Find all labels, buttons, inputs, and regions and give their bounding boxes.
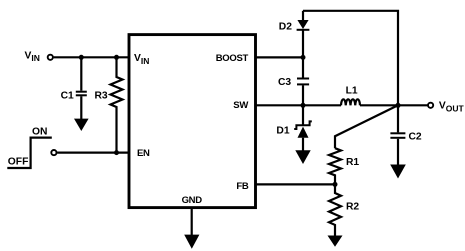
label C1: [61, 91, 74, 102]
label ON: [32, 126, 47, 137]
svg-text:ON: ON: [32, 126, 47, 137]
svg-text:C2: C2: [409, 132, 422, 143]
node VIN/R3 junction: [114, 55, 119, 60]
svg-text:FB: FB: [236, 181, 249, 192]
svg-text:EN: EN: [137, 148, 150, 159]
node R3/EN junction: [114, 150, 119, 155]
svg-text:GND: GND: [182, 195, 203, 206]
diode D2: [297, 11, 310, 58]
terminal EN: [51, 150, 56, 155]
svg-text:D2: D2: [279, 21, 292, 32]
svg-text:VOUT: VOUT: [439, 101, 465, 114]
capacitor C1: [76, 57, 87, 119]
input terminal VIN: [48, 55, 53, 60]
pin label FB: [236, 181, 249, 192]
pin label GND: [182, 195, 203, 206]
terminal VOUT: [428, 103, 433, 108]
label C3: [278, 77, 291, 88]
capacitor C2: [390, 105, 405, 165]
svg-text:BOOST: BOOST: [216, 53, 249, 64]
ground (D1): [295, 150, 310, 164]
svg-text:L1: L1: [346, 85, 358, 96]
svg-text:R1: R1: [346, 157, 359, 168]
label L1: [346, 85, 358, 96]
ON/OFF waveform: [7, 138, 52, 168]
label D2: [279, 21, 292, 32]
ground GND pin: [184, 209, 199, 249]
pin label SW: [233, 100, 248, 111]
wire FB: [256, 183, 335, 185]
resistor R2: [329, 184, 341, 236]
wire BOOST: [256, 56, 303, 58]
label VOUT: [439, 101, 465, 114]
svg-text:C1: C1: [61, 91, 74, 102]
label R3: [95, 91, 108, 102]
svg-text:VIN: VIN: [134, 53, 149, 66]
label C2: [409, 132, 422, 143]
ground (C1): [74, 119, 89, 131]
node SW/D1/C3: [301, 103, 306, 108]
inductor L1: [341, 99, 360, 105]
wire top rail: [303, 11, 398, 106]
wire EN: [57, 152, 128, 154]
pin label EN: [137, 148, 150, 159]
svg-text:D1: D1: [276, 125, 289, 136]
resistor R1: [329, 148, 341, 184]
resistor R3: [111, 57, 123, 152]
node BOOST/D2/C3: [301, 55, 306, 60]
svg-text:SW: SW: [233, 100, 248, 111]
ground (R2): [328, 236, 343, 247]
node output: [395, 103, 400, 108]
label D1: [276, 125, 289, 136]
svg-text:R2: R2: [346, 202, 359, 213]
node FB: [333, 182, 338, 187]
pin label BOOST: [216, 53, 249, 64]
label R1: [346, 157, 359, 168]
wire FB diagonal: [335, 105, 398, 148]
capacitor C3: [297, 57, 309, 105]
wire VIN input: [54, 56, 128, 58]
IC U1 body: [129, 35, 256, 208]
pin label VIN: [134, 53, 149, 66]
label OFF: [8, 157, 29, 168]
diode D1 (Schottky): [294, 105, 312, 151]
wire SW: [256, 104, 341, 106]
wire L1 to VOUT: [360, 104, 428, 106]
svg-text:C3: C3: [278, 77, 291, 88]
svg-text:R3: R3: [95, 91, 108, 102]
label R2: [346, 202, 359, 213]
svg-text:VIN: VIN: [25, 50, 40, 63]
node VIN/C1 junction: [79, 55, 84, 60]
svg-text:OFF: OFF: [8, 157, 29, 168]
ground (C2): [390, 165, 406, 179]
label VIN (input): [25, 50, 40, 63]
